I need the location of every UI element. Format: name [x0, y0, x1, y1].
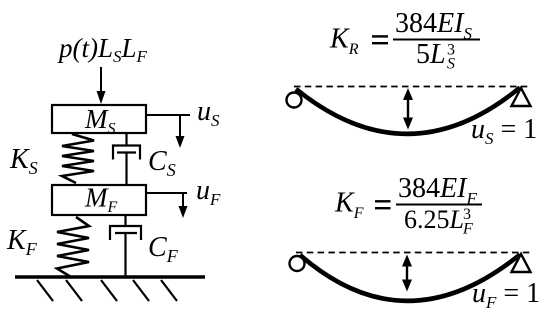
svg-text:uF = 1: uF = 1 [472, 278, 540, 312]
beam S roller support [512, 88, 531, 106]
beam F deflection curve [300, 255, 520, 301]
formula KR = 384EIs / 5Ls^3 [329, 8, 480, 73]
arrow uF [179, 193, 188, 218]
svg-text:6.25L: 6.25L [404, 205, 464, 234]
arrow uS [176, 115, 185, 148]
damper Cs [113, 133, 140, 185]
svg-text:MS: MS [84, 104, 116, 138]
beam S deflection curve [296, 88, 520, 134]
ground [15, 275, 205, 278]
ground hatching [37, 280, 177, 301]
mass Ms [52, 105, 146, 133]
svg-text:S: S [447, 56, 455, 73]
beam F deflection arrow [402, 255, 412, 292]
svg-text:MF: MF [84, 183, 118, 217]
beam S deflection arrow [403, 88, 413, 130]
beam F dashed reference line [296, 252, 530, 254]
spring Kf [57, 217, 89, 277]
svg-text:5L: 5L [416, 39, 446, 70]
beam F pin support [290, 256, 305, 271]
svg-text:384EIF: 384EIF [398, 173, 477, 208]
node uF tick line [146, 192, 187, 194]
node uS tick line [146, 114, 190, 116]
beam S dashed reference line [294, 86, 530, 88]
svg-text:KF: KF [334, 188, 364, 223]
svg-text:F: F [462, 221, 473, 238]
svg-text:uS = 1: uS = 1 [471, 114, 537, 148]
beam F roller support [512, 254, 531, 272]
svg-text:KS: KS [9, 144, 38, 178]
load arrow [97, 67, 106, 104]
svg-text:CF: CF [148, 232, 179, 266]
svg-text:uS: uS [197, 96, 220, 130]
svg-text:KF: KF [6, 225, 38, 259]
damper Cf [110, 215, 141, 277]
mass Mf [52, 185, 146, 215]
spring Ks [62, 134, 94, 183]
svg-text:KR: KR [329, 24, 359, 59]
svg-text:uF: uF [196, 175, 221, 209]
beam S pin support [287, 93, 302, 108]
svg-text:384EIS: 384EIS [395, 8, 472, 43]
svg-text:CS: CS [148, 146, 176, 180]
svg-text:p(t)LSLF: p(t)LSLF [57, 33, 148, 66]
formula KF = 384EIf / 6.25Lf^3 [334, 173, 482, 238]
